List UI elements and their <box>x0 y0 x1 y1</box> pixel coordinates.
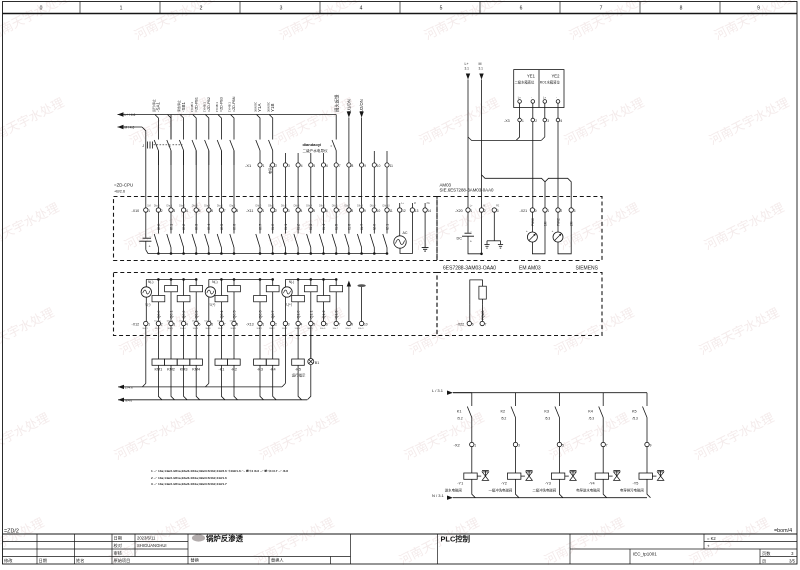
svg-text:6: 6 <box>326 209 328 213</box>
svg-text:2: 2 <box>161 209 163 213</box>
svg-text:-X12: -X12 <box>132 322 140 326</box>
svg-text:Q1.1: Q1.1 <box>309 311 313 319</box>
module DC supply battery <box>467 212 469 233</box>
svg-text:二级冲洗电磁阀: 二级冲洗电磁阀 <box>532 487 556 492</box>
branch contact K5 <box>646 393 648 406</box>
svg-text:K2: K2 <box>501 409 506 413</box>
contact -SA1 pole 2 <box>170 115 172 140</box>
svg-text:5: 5 <box>313 209 315 213</box>
svg-text:Q0.1: Q0.1 <box>170 311 174 319</box>
svg-text:1: 1 <box>470 209 472 213</box>
svg-text:RO1水箱液位: RO1水箱液位 <box>540 79 561 84</box>
svg-text:12: 12 <box>402 209 406 213</box>
svg-text:DIa.6: DIa.6 <box>230 205 236 208</box>
svg-text:DIa.3: DIa.3 <box>192 205 198 208</box>
svg-text:6: 6 <box>520 6 523 12</box>
svg-text:-Y2: -Y2 <box>501 482 507 486</box>
svg-text:4: 4 <box>301 164 303 168</box>
svg-text:36W/3C: 36W/3C <box>266 102 270 112</box>
svg-text:11: 11 <box>390 164 394 168</box>
svg-text:/5.3: /5.3 <box>633 416 639 420</box>
svg-text:36b.2: 36b.2 <box>269 328 275 330</box>
svg-text:9: 9 <box>757 6 760 12</box>
contact Y1A <box>259 139 261 141</box>
wire -Y5 to N rail <box>647 479 651 497</box>
input simulation contacts <box>154 212 387 254</box>
svg-text:DIa.2: DIa.2 <box>179 205 185 208</box>
svg-text:+: + <box>470 239 472 243</box>
svg-text:5: 5 <box>199 209 201 213</box>
svg-text:L+: L+ <box>543 96 546 100</box>
svg-text:2: 2 <box>560 209 562 213</box>
svg-text:I0.3: I0.3 <box>195 224 199 230</box>
svg-text:diandaoyi: diandaoyi <box>303 142 322 147</box>
svg-text:DIb.10: DIb.10 <box>383 205 391 208</box>
svg-text:原始项目: 原始项目 <box>114 557 131 564</box>
rail L- with arrow <box>118 385 124 389</box>
wire stubs X1 pins 10 11 <box>374 151 387 165</box>
valve symbol -Y2 <box>526 470 533 472</box>
dashed box CPU relay outputs <box>114 273 438 336</box>
valve symbol -Y1 <box>482 470 489 472</box>
dashed box AM03 analog inputs <box>437 197 602 261</box>
module ground capacitors <box>493 212 495 241</box>
svg-text:=ZD-PB3: =ZD-PB3 <box>220 97 224 112</box>
svg-text:-X10: -X10 <box>132 209 140 213</box>
svg-text:PLC控制: PLC控制 <box>441 535 471 544</box>
svg-text:8: 8 <box>351 209 353 213</box>
output PE bar symbol <box>357 284 365 287</box>
svg-text:1: 1 <box>547 209 549 213</box>
svg-text:N / 3.1: N / 3.1 <box>432 493 445 498</box>
rail N with arrow <box>118 398 124 402</box>
svg-text:-: - <box>556 97 557 100</box>
svg-text:9: 9 <box>351 323 353 327</box>
solenoid coil -Y4 <box>602 447 604 474</box>
svg-text:13: 13 <box>415 209 419 213</box>
svg-text:3: 3 <box>288 209 290 213</box>
svg-text:6ES7288-3AM03-OAA0: 6ES7288-3AM03-OAA0 <box>443 266 496 272</box>
svg-text:SHIGUANGHUI: SHIGUANGHUI <box>137 543 167 548</box>
svg-text:3: 3 <box>288 164 290 168</box>
svg-text:Q0.7: Q0.7 <box>271 311 275 319</box>
svg-text:36b.8: 36b.8 <box>345 328 351 330</box>
valve symbol -Y3 <box>570 470 577 472</box>
svg-text:6: 6 <box>326 323 328 327</box>
svg-text:3: 3 <box>280 6 283 12</box>
svg-text:K3: K3 <box>544 409 549 413</box>
cross reference notes <box>151 468 288 486</box>
svg-text:L / 3.1: L / 3.1 <box>432 388 444 393</box>
svg-text:36a.2: 36a.2 <box>155 328 161 330</box>
svg-text:3: 3 <box>173 323 175 327</box>
svg-text:36b.3: 36b.3 <box>282 328 288 330</box>
svg-text:36a.5: 36a.5 <box>193 328 199 330</box>
svg-text:1: 1 <box>120 6 123 12</box>
svg-text:36b.1: 36b.1 <box>256 328 262 330</box>
svg-text:4: 4 <box>186 323 188 327</box>
svg-text:1: 1 <box>262 323 264 327</box>
contact =ZD-PBN <box>233 139 235 141</box>
svg-text:SIE.6ES7288-3AM03-0AA0: SIE.6ES7288-3AM03-0AA0 <box>440 188 494 193</box>
svg-text:8: 8 <box>236 209 238 213</box>
svg-text:/5.3: /5.3 <box>545 416 551 420</box>
input channel labels I0.x I1.x <box>157 224 390 230</box>
svg-text:1: 1 <box>148 209 150 213</box>
title block grid <box>3 534 798 564</box>
battery 24V supply symbol <box>145 212 147 238</box>
svg-text:-Y3: -Y3 <box>545 482 551 486</box>
svg-text:3/5: 3/5 <box>789 559 795 564</box>
svg-text:-: - <box>531 97 532 100</box>
contact -SB1 <box>183 139 185 141</box>
svg-text:= K2: = K2 <box>707 536 716 541</box>
contactor coils KM1-KM4 <box>152 359 202 371</box>
svg-text:14: 14 <box>428 209 432 213</box>
CPU terminals 12 13 14 <box>398 203 432 213</box>
svg-text:DIb.7: DIb.7 <box>344 205 350 208</box>
svg-text:=ZD-PB2: =ZD-PB2 <box>207 97 211 112</box>
svg-text:DIb.1: DIb.1 <box>268 205 274 208</box>
svg-text:I0.5: I0.5 <box>220 224 224 230</box>
svg-text:9: 9 <box>364 164 366 168</box>
svg-text:PQW0: PQW0 <box>481 310 485 320</box>
wire YE L+ supply <box>516 122 520 140</box>
terminal -X2 pin 9 <box>645 442 649 446</box>
svg-text:IEC_tp1001: IEC_tp1001 <box>633 551 657 556</box>
svg-text:-Y5: -Y5 <box>633 482 639 486</box>
solenoid coil -Y3 <box>558 447 560 474</box>
svg-text:=ZD/2: =ZD/2 <box>4 529 19 535</box>
svg-text:7: 7 <box>224 209 226 213</box>
svg-text:-Y4: -Y4 <box>589 482 595 486</box>
svg-text:9: 9 <box>650 444 652 448</box>
svg-text:9: 9 <box>364 209 366 213</box>
svg-text:+B/2.6: +B/2.6 <box>114 190 125 194</box>
svg-text:1Y/4B.1: 1Y/4B.1 <box>202 102 206 112</box>
wires X1 to PLC inputs <box>260 167 387 208</box>
wire M branch to 1M 2M <box>482 175 546 208</box>
svg-text:DQa.5: DQa.5 <box>217 320 224 322</box>
svg-text:36b.6: 36b.6 <box>320 328 326 330</box>
output bus group 2 <box>209 278 273 280</box>
wire -Y4 to N rail <box>603 479 607 497</box>
svg-text:K5: K5 <box>632 409 637 413</box>
svg-text:Q0.4: Q0.4 <box>220 311 224 319</box>
svg-text:DIb.6: DIb.6 <box>332 205 338 208</box>
svg-text:8: 8 <box>352 164 354 168</box>
svg-text:5: 5 <box>440 6 443 12</box>
svg-text:M: M <box>479 62 482 66</box>
svg-text:姓名: 姓名 <box>76 557 84 564</box>
output group 3 common source <box>282 287 292 297</box>
svg-text:1: 1 <box>148 323 150 327</box>
svg-text:L+: L+ <box>465 62 469 66</box>
svg-text:N/4.6: N/4.6 <box>125 399 133 403</box>
svg-text:2: 2 <box>484 209 486 213</box>
wire L+ feed rail <box>118 112 124 116</box>
svg-text:36a.3: 36a.3 <box>167 328 173 330</box>
svg-text:36a.1: 36a.1 <box>142 328 148 330</box>
svg-text:-X11: -X11 <box>246 209 253 213</box>
svg-text:2: 2 <box>161 323 163 327</box>
svg-text:DIb.2: DIb.2 <box>281 205 287 208</box>
svg-text:3.1: 3.1 <box>465 67 470 71</box>
svg-text:3.1: 3.1 <box>479 67 484 71</box>
title block texts <box>4 535 796 564</box>
svg-text:2 ~⌐ 13a;14a/3.4/21a;22a/3.4/3: 2 ~⌐ 13a;14a/3.4/21a;22a/3.4/31a;32a/3.5… <box>151 476 227 480</box>
svg-text:DIa.1: DIa.1 <box>167 205 173 208</box>
svg-text:K1: K1 <box>457 409 462 413</box>
output group 1 common source <box>141 287 151 297</box>
wire stubs meter outputs <box>285 153 323 165</box>
svg-text:N(-): N(-) <box>148 280 154 284</box>
svg-text:8: 8 <box>680 6 683 12</box>
svg-text:5: 5 <box>313 164 315 168</box>
svg-text:5: 5 <box>199 323 201 327</box>
output bus group 3 <box>285 278 336 280</box>
AC supply source <box>399 212 401 236</box>
svg-text:/5.3: /5.3 <box>589 416 595 420</box>
svg-text:-X3: -X3 <box>504 119 510 123</box>
svg-text:-X21: -X21 <box>520 209 528 213</box>
transmitter box YE1 YE2 <box>514 70 564 108</box>
svg-text:6: 6 <box>211 209 213 213</box>
output group 2 common source <box>205 287 215 297</box>
svg-text:10: 10 <box>377 164 381 168</box>
dashed box EM AM03 analog output <box>437 273 602 336</box>
svg-text:7: 7 <box>339 164 341 168</box>
svg-text:U2/ON: U2/ON <box>359 99 364 112</box>
wire -Y3 to N rail <box>559 479 563 497</box>
input common bus <box>158 253 387 255</box>
svg-text:7: 7 <box>224 323 226 327</box>
svg-text:1Y/4B.1: 1Y/4B.1 <box>228 102 232 112</box>
svg-text:6: 6 <box>326 164 328 168</box>
svg-text:+: + <box>552 229 554 233</box>
contact =ZD-PB2 <box>208 139 210 141</box>
svg-text:7: 7 <box>339 323 341 327</box>
svg-text:K4: K4 <box>588 409 593 413</box>
YE terminal pins <box>518 96 560 104</box>
wires outputs down to coils <box>146 326 311 384</box>
svg-text:-SB1: -SB1 <box>181 101 186 112</box>
valve symbol -Y5 <box>657 470 664 472</box>
relay coils -K1 -K2 <box>215 359 240 371</box>
svg-text:=ZD-CPU: =ZD-CPU <box>114 183 133 188</box>
contact =ZD-PB3 <box>220 139 222 141</box>
svg-text:SIEMENS: SIEMENS <box>576 266 599 272</box>
signal arrow U1/ON <box>347 112 351 118</box>
svg-text:2: 2 <box>275 323 277 327</box>
svg-text:AC: AC <box>403 231 408 235</box>
svg-text:I0.0: I0.0 <box>157 224 161 230</box>
terminal -X2 pin 3 <box>513 442 517 446</box>
svg-text:修改: 修改 <box>4 557 13 564</box>
output signal arrow up <box>347 281 351 287</box>
svg-text:运行/停止: 运行/停止 <box>151 99 156 112</box>
svg-text:=bom/4: =bom/4 <box>774 528 792 534</box>
tiny DQ pin tags <box>154 320 237 322</box>
svg-text:DQa.3: DQa.3 <box>192 320 199 322</box>
svg-text:进水电磁阀: 进水电磁阀 <box>445 487 463 492</box>
svg-text:-X1: -X1 <box>245 163 252 168</box>
svg-text:4: 4 <box>360 6 363 12</box>
svg-text:YE2: YE2 <box>552 74 561 79</box>
svg-text:1Y/4B.1: 1Y/4B.1 <box>215 102 219 112</box>
svg-text:PIW2: PIW2 <box>556 218 560 226</box>
svg-text:阀头反馈: 阀头反馈 <box>334 94 341 112</box>
svg-text:10: 10 <box>377 209 381 213</box>
svg-text:L-/4.6: L-/4.6 <box>125 386 133 390</box>
svg-text:-X22: -X22 <box>457 322 465 326</box>
svg-text:DIa.0: DIa.0 <box>154 205 160 208</box>
svg-text:校对: 校对 <box>114 542 122 549</box>
svg-text:6: 6 <box>211 323 213 327</box>
svg-text:审核: 审核 <box>114 549 123 556</box>
svg-text:3: 3 <box>574 209 576 213</box>
svg-text:0: 0 <box>535 209 537 213</box>
svg-text:36W/3C: 36W/3C <box>254 102 258 112</box>
svg-text:Q0.0: Q0.0 <box>157 311 161 319</box>
svg-text:-X13: -X13 <box>246 322 254 326</box>
branch contact K4 <box>602 393 604 406</box>
solenoid coil -Y2 <box>515 447 517 474</box>
branch contact K3 <box>558 393 560 406</box>
output bus group 1 <box>146 278 196 280</box>
svg-text:-: - <box>150 234 151 238</box>
svg-text:B1: B1 <box>315 361 319 365</box>
svg-text:运行指示: 运行指示 <box>292 373 306 378</box>
svg-text:Q1.0: Q1.0 <box>297 311 301 319</box>
output channel labels Q0.x Q1.x <box>157 311 339 319</box>
svg-text:Y1B: Y1B <box>270 103 275 112</box>
svg-text:DIb.0: DIb.0 <box>256 205 262 208</box>
transducer symbol channel 0 <box>531 212 533 232</box>
svg-text:-X20: -X20 <box>455 209 463 213</box>
svg-text:-Y1: -Y1 <box>457 482 463 486</box>
svg-text:电导排污电磁阀: 电导排污电磁阀 <box>620 487 644 492</box>
svg-text:7: 7 <box>485 323 487 327</box>
svg-text:J: J <box>142 144 144 148</box>
wire YE1 minus to PIW0 <box>532 122 534 208</box>
svg-text:3: 3 <box>497 209 499 213</box>
contact =ZD-PB1 <box>195 139 197 141</box>
svg-text:1: 1 <box>262 209 264 213</box>
svg-text:M: M <box>483 205 485 208</box>
svg-text:3: 3 <box>173 209 175 213</box>
svg-text:1M: 1M <box>147 205 150 208</box>
terminal -X2 pin 7 <box>601 442 605 446</box>
svg-text:紧急停止: 紧急停止 <box>176 100 181 112</box>
company logo mark <box>192 534 205 541</box>
wire -Y2 to N rail <box>516 479 520 497</box>
svg-text:3: 3 <box>518 444 520 448</box>
svg-text:3: 3 <box>547 119 549 123</box>
svg-text:1: 1 <box>522 119 524 123</box>
output channel boxes <box>152 278 343 321</box>
svg-text:Q0.2: Q0.2 <box>182 311 186 319</box>
svg-text:=ZD-PBN: =ZD-PBN <box>232 96 236 112</box>
contact valve feedback linked <box>331 145 334 147</box>
wire branch drops from L+ rail <box>155 115 273 140</box>
tiny DI pin tags <box>154 202 430 208</box>
svg-text:DQa.6: DQa.6 <box>230 320 237 322</box>
svg-text:替换人: 替换人 <box>271 557 284 564</box>
svg-text:6: 6 <box>472 323 474 327</box>
svg-text:11: 11 <box>389 209 393 213</box>
svg-text:-X2: -X2 <box>454 443 461 448</box>
svg-text:I2.0: I2.0 <box>373 224 377 230</box>
svg-text:Q0.3: Q0.3 <box>195 311 199 319</box>
svg-text:36a.4: 36a.4 <box>180 328 186 330</box>
svg-text:PE: PE <box>427 202 431 205</box>
solenoid coil -Y5 <box>646 447 648 474</box>
svg-text:/5.2: /5.2 <box>501 416 507 420</box>
svg-text:2: 2 <box>275 209 277 213</box>
svg-text:DIb.3: DIb.3 <box>294 205 300 208</box>
svg-text:页数: 页数 <box>762 550 771 557</box>
svg-text:YE1: YE1 <box>527 74 536 79</box>
svg-text:DC: DC <box>457 236 463 240</box>
svg-text:N(-): N(-) <box>289 280 295 284</box>
svg-text:4: 4 <box>301 209 303 213</box>
svg-text:L(+): L(+) <box>210 303 216 307</box>
wires SA1 SB1 PB chain to PLC inputs <box>158 151 234 209</box>
svg-text:DIb.5: DIb.5 <box>319 205 325 208</box>
svg-text:3 ~⌐ 13a;14a/3.4/21a;22a/3.4/3: 3 ~⌐ 13a;14a/3.4/21a;22a/3.4/31a;32a/3.5… <box>151 482 227 486</box>
wire -Y1 to N rail <box>472 479 476 497</box>
svg-text:36b.7: 36b.7 <box>333 328 339 330</box>
svg-text:2: 2 <box>275 164 277 168</box>
contact -SA1 pole 1 <box>157 139 159 141</box>
dashed box CPU digital inputs <box>114 197 438 261</box>
svg-text:Q0.6: Q0.6 <box>259 311 263 319</box>
column numbers <box>40 6 761 12</box>
svg-text:10: 10 <box>364 323 368 327</box>
svg-text:4: 4 <box>301 323 303 327</box>
svg-text:U1/ON: U1/ON <box>346 99 351 112</box>
svg-text:3: 3 <box>288 323 290 327</box>
svg-text:7: 7 <box>600 6 603 12</box>
svg-text:Y1A: Y1A <box>257 103 262 112</box>
svg-text:N(-): N(-) <box>212 280 218 284</box>
svg-text:M / 4.6: M / 4.6 <box>125 126 135 130</box>
svg-text:/5.2: /5.2 <box>457 416 463 420</box>
svg-text:二级产水电导仪: 二级产水电导仪 <box>303 148 329 153</box>
svg-text:-SA1: -SA1 <box>156 101 161 112</box>
svg-text:4: 4 <box>560 119 562 123</box>
relay coil -K5 <box>292 359 305 365</box>
svg-text:I1.3: I1.3 <box>309 224 313 230</box>
svg-text:+: + <box>149 244 151 248</box>
svg-text:=ZD-PB1: =ZD-PB1 <box>194 97 198 112</box>
analog output load resistor <box>470 280 483 305</box>
svg-text:一级冲洗电磁阀: 一级冲洗电磁阀 <box>489 487 513 492</box>
contact Y1B <box>272 139 274 141</box>
svg-text:DQa.0: DQa.0 <box>154 320 161 322</box>
svg-text:2: 2 <box>535 119 537 123</box>
valve symbol -Y4 <box>613 470 620 472</box>
svg-text:1 ~⌐ 13a;14a/3.4/21a;22a/3.4/3: 1 ~⌐ 13a;14a/3.4/21a;22a/3.4/31a;32a/3.5… <box>151 468 288 473</box>
branch contact K2 <box>515 393 517 406</box>
svg-text:Q1.3: Q1.3 <box>335 311 339 319</box>
solenoid coil -Y1 <box>471 447 473 474</box>
svg-text:M: M <box>414 202 416 205</box>
svg-text:DQa.2: DQa.2 <box>179 320 186 322</box>
svg-text:4: 4 <box>186 209 188 213</box>
svg-text:锅炉反渗透: 锅炉反渗透 <box>206 534 244 543</box>
